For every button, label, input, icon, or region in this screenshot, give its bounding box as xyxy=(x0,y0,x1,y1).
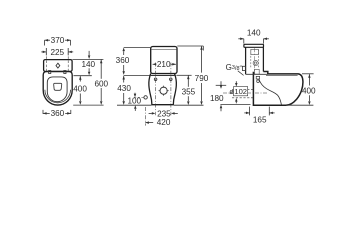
dim 400 plan dim line lower xyxy=(79,94,82,105)
side view: cistern body xyxy=(246,47,264,74)
dim 360 front dim line xyxy=(122,48,125,56)
dim 210 text xyxy=(157,60,171,69)
dim 430 lower arrow xyxy=(122,93,125,105)
front view: water inlet circle xyxy=(144,96,147,99)
dim 100 text xyxy=(127,96,141,105)
dim 355 extension line xyxy=(176,74,191,76)
dim 430 dim line xyxy=(122,76,125,83)
dim 165 text xyxy=(253,116,267,125)
dim o102 arrows xyxy=(235,81,238,103)
svg-text:180: 180 xyxy=(210,94,224,103)
plan view: inner rim arc xyxy=(45,90,71,103)
dim 140 outside arrow above xyxy=(88,51,91,59)
label G3/8 leader line xyxy=(238,71,244,76)
dim 140 text xyxy=(81,60,95,69)
dim 420 text xyxy=(157,118,171,127)
dim 430 text xyxy=(117,84,131,93)
dim 180 upper arrow xyxy=(220,81,223,89)
plan top extension line (tank top level) xyxy=(72,58,103,60)
dim 360 end ticks xyxy=(43,110,71,114)
svg-text:430: 430 xyxy=(117,84,131,93)
svg-text:360: 360 xyxy=(116,56,130,65)
front view: trap target circle xyxy=(159,86,169,96)
dim 165 ticks xyxy=(250,107,270,116)
svg-text:420: 420 xyxy=(157,118,171,127)
svg-text:140: 140 xyxy=(247,29,261,38)
dim 370 text xyxy=(51,36,65,45)
dim 165 line with outside arrows xyxy=(244,112,274,115)
dim 400 plan dim line upper xyxy=(79,76,82,81)
side view: platform top line under cistern xyxy=(246,73,268,75)
dim 225 extension dashed lines into tank xyxy=(46,48,68,71)
dim 225 text xyxy=(50,48,64,57)
front view: inlet dashed centerline xyxy=(134,96,144,98)
dim 420 left chain extension line xyxy=(144,107,146,126)
dim 102 frame xyxy=(234,87,248,96)
front view: left bolt centerline (chain line) xyxy=(155,63,157,116)
plan bottom extension line (bowl front level) xyxy=(73,104,103,106)
side view: seat profile line xyxy=(266,75,298,77)
plan seat-top extension line xyxy=(74,75,92,77)
dim 400 side extension line xyxy=(302,73,314,75)
dim 355 text xyxy=(182,87,196,96)
plan view: right seat hinge lug xyxy=(64,71,66,74)
dim 100 upper arrow xyxy=(134,93,137,98)
dim 140 side line with outside arrows xyxy=(238,38,269,41)
svg-text:370: 370 xyxy=(51,36,65,45)
side view: seat hinge detail xyxy=(256,76,259,82)
svg-text:790: 790 xyxy=(195,74,209,83)
front view: floor line right segment xyxy=(174,104,204,106)
dim 360 line with arrows xyxy=(43,112,71,115)
dim 180 floor extension line xyxy=(220,103,250,105)
dim 360 front lower arrow xyxy=(122,65,125,75)
svg-text:225: 225 xyxy=(50,48,64,57)
label G3/8 text xyxy=(226,63,243,72)
dim o102 text xyxy=(229,87,247,96)
front view: cistern lid joint line xyxy=(151,49,176,51)
plan view: sump outline inside bowl xyxy=(54,83,62,90)
dim 360/430 shared extension line xyxy=(124,74,150,76)
plan view: bowl outer outline xyxy=(43,72,72,105)
svg-text:165: 165 xyxy=(253,116,267,125)
front view: right bolt hole circle xyxy=(170,78,173,81)
dim 370 line with end ticks xyxy=(45,39,71,46)
dim 360 text xyxy=(51,109,65,118)
side view: floor extension right xyxy=(286,104,313,106)
side view: valve outlet box xyxy=(254,69,259,74)
svg-text:600: 600 xyxy=(94,79,108,88)
dim 100 lower arrow xyxy=(134,105,137,111)
dim 420 line with arrow xyxy=(145,121,153,124)
side view: cistern lid xyxy=(244,44,264,47)
dim 400 side dim line lower xyxy=(308,95,311,105)
dim 180 top tick xyxy=(216,84,227,86)
svg-text:140: 140 xyxy=(81,60,95,69)
dim 790 top extension line xyxy=(177,46,203,51)
dim 140 lower arrow xyxy=(88,68,91,75)
svg-text:360: 360 xyxy=(51,109,65,118)
dim 360 front top extension line xyxy=(124,47,151,49)
svg-text:100: 100 xyxy=(127,96,141,105)
dim 140 side text xyxy=(247,29,261,38)
dim 355 dim line lower xyxy=(187,96,190,105)
dim 600 text xyxy=(94,79,108,88)
front view: cistern outline xyxy=(151,47,177,74)
front view: floor line left segment xyxy=(117,104,151,106)
svg-text:400: 400 xyxy=(73,85,87,94)
dim 600 dim line upper xyxy=(100,60,103,79)
side view: outlet pipe hidden lines xyxy=(232,90,253,98)
side view: flush valve dashed housing xyxy=(251,49,259,67)
dim 235 text xyxy=(157,110,171,119)
side view: trap curve xyxy=(259,80,282,106)
front view: left bolt hole circle xyxy=(154,78,157,81)
dim 400 plan text xyxy=(73,85,87,94)
dim 400 side text xyxy=(302,86,316,95)
dim 180 text xyxy=(210,94,224,103)
dim 235 line with outside arrows xyxy=(149,112,178,115)
side view: inlet fitting at cistern left xyxy=(242,66,245,70)
side view: flush valve circles xyxy=(253,61,258,66)
dim 600 dim line lower xyxy=(100,88,103,105)
svg-text:355: 355 xyxy=(182,87,196,96)
plan view: cistern tank outline (top view) xyxy=(44,60,73,72)
plan view: seat opening outline xyxy=(47,77,67,102)
svg-text:400: 400 xyxy=(302,86,316,95)
side view: bowl outline xyxy=(253,72,303,106)
dim 400 side dim line upper xyxy=(308,74,311,85)
dim 225 line with outside arrows xyxy=(41,48,73,55)
dim 790 dim line lower xyxy=(200,83,203,105)
side view: flush valve centerline xyxy=(254,48,256,74)
dim 360 front text xyxy=(116,56,130,65)
svg-text:G3/8″: G3/8″ xyxy=(226,63,243,72)
dim 180 lower arrow xyxy=(220,105,223,112)
plan view: left seat hinge lug xyxy=(49,71,51,74)
dim 140 side ticks xyxy=(244,39,264,44)
front view: seat line xyxy=(150,74,176,76)
front view: right bolt centerline (chain line) xyxy=(170,63,172,116)
front view: pedestal outline xyxy=(149,74,177,105)
dim 790 text xyxy=(195,74,209,83)
side view: outlet pipe centerline xyxy=(223,92,268,94)
dim 210 line and arrows xyxy=(153,63,176,66)
svg-text:102: 102 xyxy=(234,87,247,96)
plan view: flush button diamond on tank xyxy=(56,63,60,68)
dim 790 dim line upper xyxy=(200,46,203,72)
svg-text:210: 210 xyxy=(157,60,171,69)
dim 355 dim line upper xyxy=(187,76,190,87)
